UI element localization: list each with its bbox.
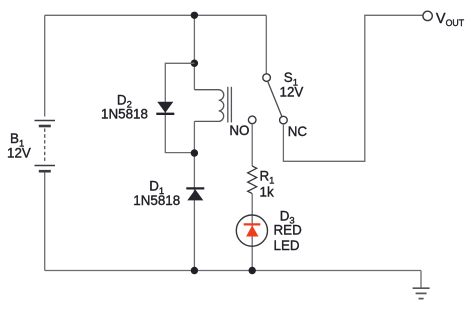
wire top rail from battery to switch — [45, 14, 267, 16]
wire NC branch to Vout — [283, 15, 423, 161]
LED D3 red cathode bar — [244, 223, 261, 225]
node bottom-rail junction (LED branch) — [249, 267, 256, 274]
terminal Vout — [423, 11, 432, 20]
diode D2 — [156, 102, 174, 114]
svg-text:LED: LED — [274, 238, 300, 253]
switch NC contact — [280, 116, 288, 124]
relay coil K (winding) — [194, 90, 223, 122]
wire main vertical upper segment — [193, 15, 195, 89]
relay core lines — [227, 87, 229, 123]
LED D3 circle — [236, 215, 267, 246]
switch NO contact — [248, 116, 256, 124]
diode D1 — [186, 188, 204, 200]
node top-rail junction — [191, 12, 198, 19]
wire battery bottom to bottom rail — [44, 173, 46, 271]
svg-text:NC: NC — [288, 124, 308, 139]
LED D3 red triangle — [246, 225, 258, 236]
ground — [413, 288, 430, 298]
node bottom-rail junction (D1 branch) — [191, 267, 198, 274]
wire bottom rail — [45, 270, 421, 272]
switch S1 common contact — [263, 74, 271, 82]
wire NO branch down to resistor — [251, 124, 253, 166]
wire ground drop — [420, 271, 422, 288]
svg-text:NO: NO — [229, 123, 249, 138]
wire D2 branch loop — [165, 63, 194, 152]
svg-text:1N5818: 1N5818 — [101, 106, 148, 121]
resistor R1 — [248, 166, 257, 194]
svg-text:1k: 1k — [260, 184, 274, 199]
switch S1 arm — [268, 81, 282, 117]
battery B1 — [35, 121, 56, 172]
wire left rail down to battery top — [44, 15, 46, 116]
svg-text:12V: 12V — [7, 145, 31, 160]
wire switch feed — [265, 15, 267, 73]
svg-text:12V: 12V — [280, 85, 304, 100]
node D2 top junction — [191, 60, 198, 67]
svg-text:RED: RED — [274, 222, 303, 237]
wire resistor to LED and through to bottom rail — [251, 194, 253, 271]
wire main vertical lower segment — [193, 121, 195, 270]
svg-text:1N5818: 1N5818 — [133, 193, 180, 208]
node D2 bottom junction — [191, 149, 198, 156]
